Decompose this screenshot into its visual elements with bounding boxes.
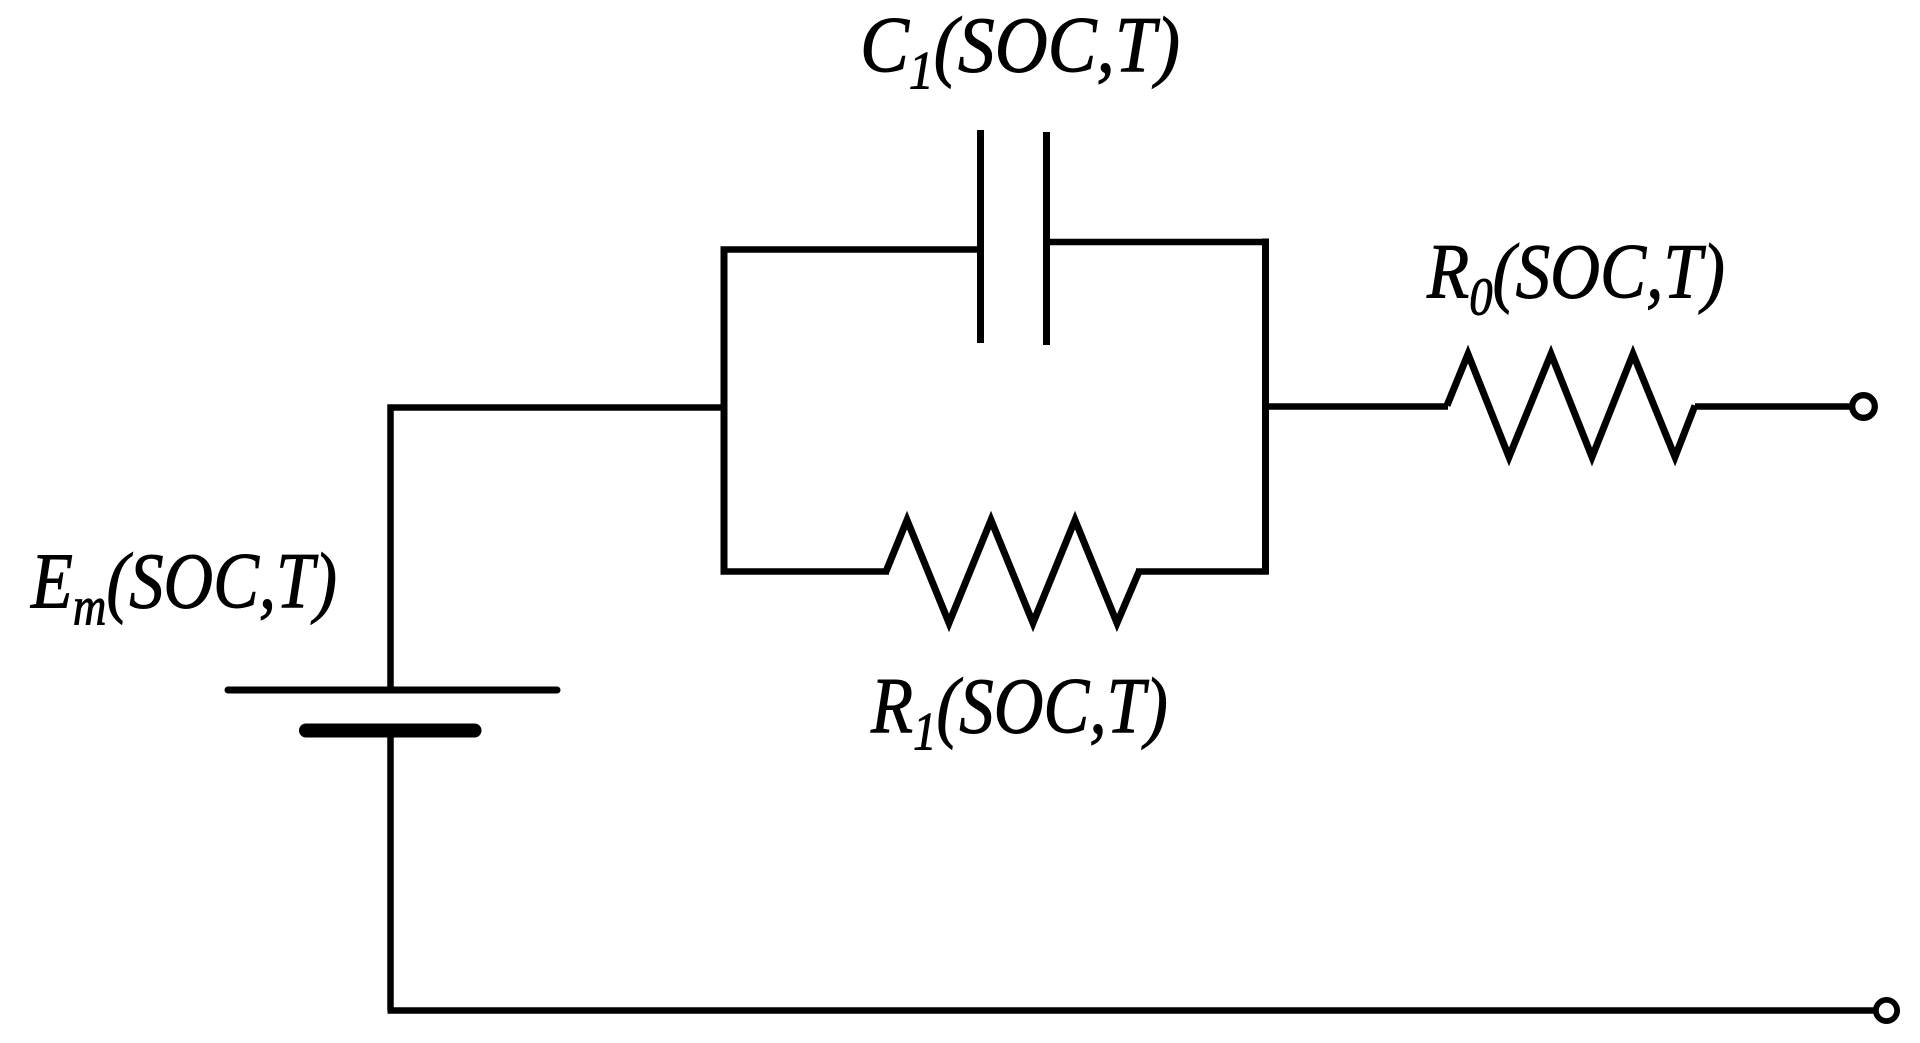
label R0(SOC,T) [1427, 233, 1725, 311]
node box left edge [721, 247, 728, 575]
capacitor C1 right plate [1043, 132, 1050, 345]
label R1(SOC,T) [871, 667, 1168, 747]
wire top horizontal left [388, 404, 725, 411]
wire bottom horizontal [388, 1007, 1877, 1014]
terminal top circle [1852, 395, 1875, 418]
battery Em long thin plate [228, 687, 557, 694]
battery Em short thick plate [306, 724, 475, 738]
label Em(SOC,T) [31, 542, 337, 622]
label C1(SOC,T) [860, 6, 1180, 86]
capacitor C1 left plate [977, 130, 984, 343]
terminal bottom circle [1876, 1000, 1897, 1021]
wire box bottom-right segment [1136, 568, 1269, 575]
resistor R0 zigzag [1447, 354, 1695, 457]
node box right edge [1262, 239, 1269, 575]
wire box bottom-left segment [721, 568, 890, 575]
wire battery top vertical [387, 405, 394, 691]
wire battery bottom vertical [387, 737, 394, 1011]
resistor R1 zigzag [886, 520, 1139, 623]
wire R0 to top terminal [1695, 403, 1853, 410]
wire box top-left segment [721, 246, 981, 253]
wire box top-right segment [1047, 239, 1269, 246]
wire box right to R0 [1262, 403, 1448, 410]
